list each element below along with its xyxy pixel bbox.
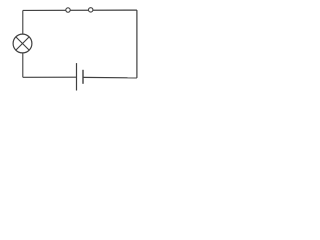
wire top side [23, 9, 137, 11]
wire bottom left segment [23, 76, 77, 78]
wire bottom right segment [83, 76, 137, 79]
switch S1 terminal circle right [89, 8, 93, 12]
battery B1 short plate [82, 70, 84, 84]
battery B1 long plate [76, 63, 78, 90]
wire right side [136, 10, 138, 78]
wire left side [22, 10, 24, 77]
switch S1 terminal circle left [66, 8, 70, 12]
lamp L1 [13, 34, 32, 53]
